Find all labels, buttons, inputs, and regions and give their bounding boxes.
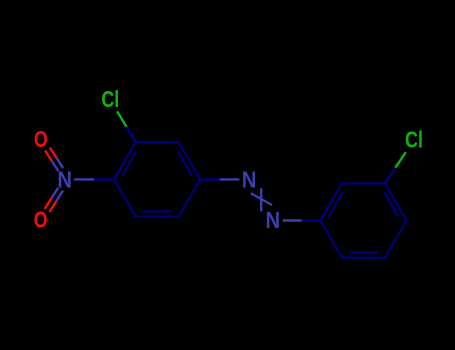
double bond O=N (bottom, nitro) <box>49 201 56 212</box>
aromatic double bond C3'=C4' (right ring inner line, Cl side) <box>384 192 398 217</box>
aromatic double bond C1'=C2' (right ring inner line, azo side) <box>329 192 343 217</box>
atom label Cl (left chlorine) <box>101 87 119 113</box>
aromatic double bond C2=C1 (left ring inner line, azo side) <box>178 151 192 176</box>
bond N-C1' (azo N to right ring) <box>283 219 302 221</box>
bond Cl-C3' (right chloro) <box>395 152 406 168</box>
bond N-C4 (nitro to ring) <box>74 178 94 180</box>
atom label O (top oxygen) <box>34 126 48 152</box>
svg-text:O: O <box>34 207 48 233</box>
svg-text:Cl: Cl <box>405 127 423 153</box>
aromatic double bond C6=C5 (left ring inner line, bottom) <box>143 210 171 212</box>
atom label N (azo nitrogen 1) <box>242 166 257 193</box>
svg-text:O: O <box>34 126 48 152</box>
atom label Cl (right chlorine) <box>405 127 423 153</box>
svg-text:N: N <box>242 166 257 193</box>
svg-text:Cl: Cl <box>101 87 119 113</box>
bond C1-N (ring to azo N) <box>200 178 220 180</box>
svg-text:N: N <box>57 166 72 193</box>
svg-text:N: N <box>265 207 280 234</box>
double bond N=N (azo, crossed/unspecified stereo) <box>260 188 262 211</box>
bond Cl-C3 (left chloro) <box>117 111 126 126</box>
atom label N (azo nitrogen 2) <box>265 207 280 234</box>
benzene ring (right, 3-chlorophenyl) <box>320 183 406 257</box>
atom label O (bottom oxygen) <box>34 207 48 233</box>
atom label N (nitro nitrogen) <box>57 166 72 193</box>
double bond O=N (top, nitro) <box>45 151 52 161</box>
aromatic double bond C4=C3 (left ring inner line, NO2/Cl side) <box>122 151 136 176</box>
aromatic double bond C5'=C6' (right ring inner line, bottom) <box>349 251 377 253</box>
benzene ring (left, 3-chloro-4-nitrophenyl) <box>114 142 200 216</box>
